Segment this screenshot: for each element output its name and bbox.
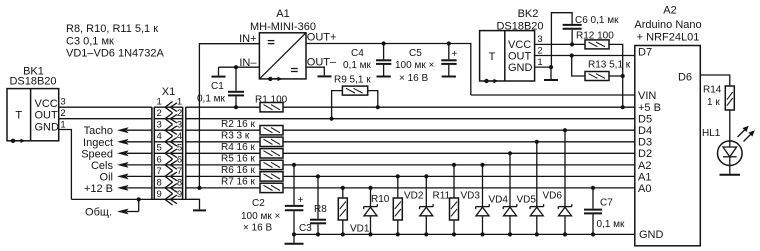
wire IN+ from +12V bbox=[199, 44, 259, 188]
svg-text:X1: X1 bbox=[162, 86, 175, 98]
svg-text:VD1–VD6 1N4732A: VD1–VD6 1N4732A bbox=[66, 48, 165, 60]
svg-text:D3: D3 bbox=[638, 137, 652, 149]
svg-text:C4: C4 bbox=[351, 48, 364, 59]
svg-text:D7: D7 bbox=[638, 47, 652, 59]
svg-text:0,1 мк: 0,1 мк bbox=[197, 94, 226, 105]
svg-text:R13 5,1 к: R13 5,1 к bbox=[588, 59, 631, 70]
svg-text:R8, R10, R11 5,1 к: R8, R10, R11 5,1 к bbox=[66, 23, 158, 35]
svg-text:R11: R11 bbox=[433, 190, 451, 201]
svg-text:R8: R8 bbox=[314, 204, 327, 215]
wire bus w3 Tacho to D4 bbox=[186, 129, 260, 131]
svg-text:1: 1 bbox=[60, 119, 65, 130]
wire bus w1 +5V rail bbox=[186, 106, 260, 108]
svg-text:GND: GND bbox=[35, 121, 60, 133]
svg-text:C6 0,1 мк: C6 0,1 мк bbox=[575, 15, 619, 26]
wire BK2 OUT to D7 bbox=[535, 55, 635, 57]
svg-text:VD3: VD3 bbox=[461, 190, 481, 201]
svg-text:Oil: Oil bbox=[100, 171, 113, 183]
svg-text:R2 16 к: R2 16 к bbox=[221, 119, 255, 130]
wire bus w6 Cels to A2 bbox=[186, 164, 260, 166]
ground at IN- bbox=[212, 76, 226, 78]
svg-text:BK2: BK2 bbox=[518, 8, 539, 20]
wire bus w4 Ingect to D3 bbox=[186, 141, 260, 143]
svg-text:OUT+: OUT+ bbox=[307, 32, 337, 44]
wire BK1 VCC to X1 pin1 bbox=[59, 106, 152, 108]
svg-text:1: 1 bbox=[537, 57, 542, 68]
svg-text:0,1 мк: 0,1 мк bbox=[343, 60, 372, 71]
svg-text:R9 5,1 к: R9 5,1 к bbox=[334, 75, 371, 86]
svg-text:2: 2 bbox=[157, 108, 162, 119]
led arrows bbox=[738, 128, 748, 138]
svg-text:3: 3 bbox=[157, 120, 162, 131]
svg-text:+ NRF24L01: + NRF24L01 bbox=[637, 32, 700, 44]
svg-text:A1: A1 bbox=[276, 8, 289, 20]
svg-text:× 16 В: × 16 В bbox=[399, 73, 429, 84]
svg-text:4: 4 bbox=[157, 131, 162, 142]
svg-text:3: 3 bbox=[537, 34, 542, 45]
svg-text:R3 3 к: R3 3 к bbox=[221, 130, 250, 141]
svg-text:D4: D4 bbox=[638, 125, 652, 137]
svg-text:Arduino Nano: Arduino Nano bbox=[634, 19, 701, 31]
svg-text:GND: GND bbox=[639, 229, 664, 241]
svg-text:Speed: Speed bbox=[81, 148, 113, 160]
svg-text:C7: C7 bbox=[600, 198, 613, 209]
svg-text:8: 8 bbox=[177, 177, 182, 188]
svg-text:VD2: VD2 bbox=[404, 190, 424, 201]
ground rail bbox=[294, 233, 635, 235]
wire bus w5 Speed to D2 bbox=[186, 152, 260, 154]
svg-text:Общ.: Общ. bbox=[85, 207, 112, 219]
svg-text:GND: GND bbox=[508, 62, 533, 74]
svg-text:+5 В: +5 В bbox=[638, 102, 661, 114]
svg-text:C5: C5 bbox=[409, 48, 422, 59]
svg-text:+: + bbox=[452, 49, 458, 60]
svg-text:× 16 В: × 16 В bbox=[243, 223, 273, 234]
svg-text:R6 16 к: R6 16 к bbox=[221, 165, 255, 176]
svg-text:2: 2 bbox=[177, 108, 182, 119]
svg-text:T: T bbox=[15, 110, 22, 122]
svg-text:D6: D6 bbox=[678, 72, 692, 84]
wire common rail w9 bbox=[71, 198, 199, 200]
svg-text:VD4: VD4 bbox=[489, 195, 509, 206]
svg-text:VD5: VD5 bbox=[517, 195, 537, 206]
wire BK1 GND down to common bbox=[59, 130, 72, 200]
svg-text:2: 2 bbox=[60, 108, 65, 119]
svg-text:R5 16 к: R5 16 к bbox=[221, 154, 255, 165]
ground at X1 bbox=[193, 209, 206, 211]
svg-text:4: 4 bbox=[177, 131, 182, 142]
svg-text:T: T bbox=[489, 51, 496, 63]
svg-text:A2: A2 bbox=[663, 5, 676, 17]
wire bus w7 Oil to A1 bbox=[186, 175, 260, 177]
svg-text:0,1 мк: 0,1 мк bbox=[597, 219, 626, 230]
svg-text:Cels: Cels bbox=[91, 160, 114, 172]
svg-text:+12 В: +12 В bbox=[84, 183, 113, 195]
svg-text:Tacho: Tacho bbox=[84, 125, 113, 137]
svg-text:VD6: VD6 bbox=[543, 190, 563, 201]
svg-text:R4 16 к: R4 16 к bbox=[221, 142, 255, 153]
svg-text:VD1: VD1 bbox=[350, 224, 370, 235]
svg-text:C3: C3 bbox=[299, 223, 312, 234]
wire BK2 VCC bbox=[535, 43, 585, 45]
svg-text:7: 7 bbox=[157, 166, 162, 177]
svg-text:DS18B20: DS18B20 bbox=[9, 76, 56, 88]
ground at OUT- bbox=[318, 75, 332, 77]
svg-text:D5: D5 bbox=[638, 114, 652, 126]
svg-text:100 мк ×: 100 мк × bbox=[395, 60, 434, 71]
svg-text:3: 3 bbox=[60, 97, 65, 108]
ground at HL1 bbox=[720, 174, 741, 176]
main ground under C2 bbox=[293, 234, 295, 242]
wire bus w8 +12V to A0 bbox=[186, 187, 260, 189]
svg-text:6: 6 bbox=[157, 154, 162, 165]
svg-text:C3 0,1 мк: C3 0,1 мк bbox=[66, 35, 114, 47]
wire IN- to ground bbox=[219, 66, 260, 68]
svg-text:A1: A1 bbox=[638, 171, 651, 183]
svg-text:2: 2 bbox=[537, 45, 542, 56]
svg-text:6: 6 bbox=[177, 154, 182, 165]
svg-text:OUT: OUT bbox=[508, 50, 532, 62]
svg-text:1: 1 bbox=[177, 97, 182, 108]
svg-text:VIN: VIN bbox=[638, 90, 656, 102]
wire D6 to R14 bbox=[700, 75, 730, 86]
svg-text:OUT: OUT bbox=[35, 110, 59, 122]
svg-text:R7 16 к: R7 16 к bbox=[221, 177, 255, 188]
svg-text:A0: A0 bbox=[638, 183, 651, 195]
wire OUT- to ground bbox=[306, 67, 324, 75]
svg-text:C2: C2 bbox=[252, 198, 265, 209]
svg-text:9: 9 bbox=[177, 189, 182, 200]
svg-text:A2: A2 bbox=[638, 160, 651, 172]
svg-text:VCC: VCC bbox=[35, 98, 58, 110]
svg-text:Ingect: Ingect bbox=[83, 137, 113, 149]
svg-text:3: 3 bbox=[177, 120, 182, 131]
wire bus w2 BK1 data to D5 bbox=[186, 118, 635, 120]
svg-text:+: + bbox=[298, 195, 304, 206]
svg-text:100 мк ×: 100 мк × bbox=[241, 211, 280, 222]
svg-text:R10: R10 bbox=[371, 194, 390, 205]
wire OUT+ 5V rail bbox=[306, 44, 471, 96]
svg-text:HL1: HL1 bbox=[702, 128, 721, 139]
svg-text:5: 5 bbox=[177, 143, 182, 154]
wire BK1 OUT to X1 pin2 bbox=[59, 118, 152, 120]
svg-text:R14: R14 bbox=[703, 85, 722, 96]
svg-text:VCC: VCC bbox=[508, 39, 531, 51]
svg-text:C1: C1 bbox=[211, 81, 224, 92]
ground at BK2 bbox=[544, 79, 558, 81]
wire BK2 GND bbox=[535, 67, 551, 79]
svg-text:7: 7 bbox=[177, 166, 182, 177]
svg-text:9: 9 bbox=[157, 189, 162, 200]
wire VIN bbox=[471, 94, 635, 96]
svg-text:D2: D2 bbox=[638, 148, 652, 160]
svg-text:5: 5 bbox=[157, 143, 162, 154]
svg-text:8: 8 bbox=[157, 177, 162, 188]
svg-text:1 к: 1 к bbox=[707, 97, 720, 108]
svg-text:1: 1 bbox=[157, 97, 162, 108]
